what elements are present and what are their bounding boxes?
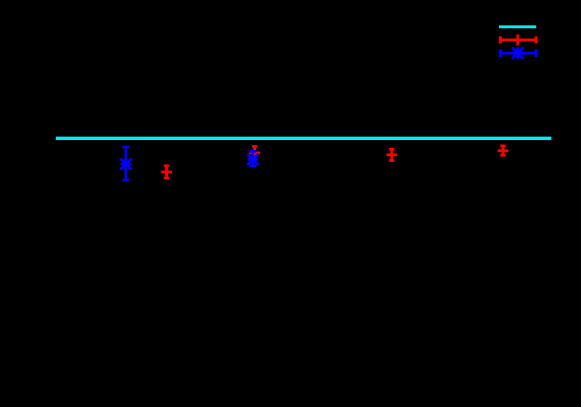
red data point 3 (x=391.8): [386, 149, 397, 160]
cyan reference line y=1: [56, 137, 552, 140]
red data point 1 (x=166.6): [161, 166, 172, 178]
legend cyan line sample: [499, 25, 536, 28]
red data point 4 (x=503.0): [498, 145, 509, 156]
blue data point 2 (x=252.9) with star marker: [247, 151, 258, 166]
legend blue errorbar sample with star marker: [500, 47, 536, 58]
legend red errorbar sample: [500, 34, 536, 45]
red data point 2 (x=254.7): [249, 147, 260, 160]
blue data point 1 (x=125.9) with star marker: [120, 147, 131, 180]
